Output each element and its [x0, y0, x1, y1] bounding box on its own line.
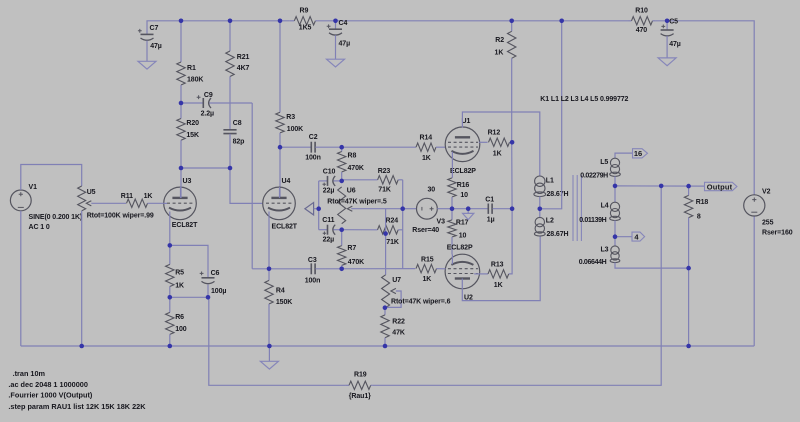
svg-text:100n: 100n [305, 155, 321, 162]
wire C3 row [252, 268, 311, 270]
svg-text:R4: R4 [276, 287, 285, 294]
wire C3 to R15 [316, 268, 416, 270]
svg-text:100n: 100n [305, 277, 321, 284]
svg-text:R15: R15 [421, 256, 434, 263]
wire B+ rail middle [317, 20, 628, 22]
svg-text:100: 100 [175, 326, 187, 333]
svg-text:SINE(0 0.200 1K): SINE(0 0.200 1K) [29, 214, 83, 221]
svg-text:150K: 150K [276, 299, 292, 306]
svg-text:10: 10 [459, 233, 467, 240]
triode U3 [164, 178, 198, 229]
svg-text:1K: 1K [494, 282, 503, 289]
pentode U1 [445, 118, 480, 175]
svg-text:470K: 470K [348, 165, 364, 172]
svg-text:.Fourrier 1000 V(Output): .Fourrier 1000 V(Output) [8, 391, 92, 400]
svg-text:22µ: 22µ [323, 236, 335, 243]
svg-text:0.01139H: 0.01139H [579, 217, 606, 224]
capacitor C6 [170, 245, 227, 297]
svg-text:R13: R13 [491, 261, 504, 268]
wire ground rail bottom [21, 345, 754, 347]
svg-text:15K: 15K [186, 132, 199, 139]
svg-text:1K: 1K [495, 50, 504, 57]
svg-text:C10: C10 [323, 168, 336, 175]
capacitor C9 [181, 92, 252, 118]
svg-text:L4: L4 [601, 203, 609, 210]
capacitor C8 [223, 120, 244, 168]
wire U6 wiper to U7 [385, 209, 387, 275]
svg-text:AC 1 0: AC 1 0 [29, 224, 50, 231]
svg-text:47µ: 47µ [339, 41, 351, 48]
svg-text:C2: C2 [309, 134, 318, 141]
capacitor C11 [319, 217, 342, 243]
svg-text:1K5: 1K5 [299, 24, 312, 31]
svg-text:R17: R17 [456, 220, 469, 227]
svg-text:L2: L2 [546, 217, 554, 224]
wire U5 to rail [81, 211, 83, 346]
svg-text:28.67H: 28.67H [547, 231, 569, 238]
svg-text:U4: U4 [282, 178, 291, 185]
svg-text:ECL82P: ECL82P [450, 168, 476, 175]
svg-text:2.2µ: 2.2µ [201, 111, 214, 118]
resistor R5 [166, 245, 185, 297]
ground at C7 [138, 61, 156, 69]
wire C9 to C3 row [251, 103, 253, 269]
wire C8 to U4 grid [230, 168, 262, 203]
svg-text:28.67H: 28.67H [547, 191, 569, 198]
svg-text:L1: L1 [546, 178, 554, 185]
svg-text:R24: R24 [386, 218, 399, 225]
wire U3 grid [164, 202, 167, 204]
svg-text:L5: L5 [600, 159, 608, 166]
svg-text:R9: R9 [300, 8, 309, 15]
voltage source V3 [403, 187, 452, 234]
svg-text:R21: R21 [237, 54, 250, 61]
svg-text:1K: 1K [493, 151, 502, 158]
wire output row [615, 185, 704, 187]
svg-text:Rser=160: Rser=160 [762, 229, 793, 236]
capacitor C7 [138, 25, 162, 61]
potentiometer U7 [382, 275, 451, 308]
pentode U2 [445, 244, 480, 301]
svg-text:30: 30 [428, 187, 436, 194]
svg-text:C3: C3 [308, 257, 317, 264]
wire U6 wiper row [351, 208, 403, 210]
resistor R18 [684, 186, 708, 346]
svg-text:1K: 1K [175, 282, 184, 289]
svg-text:R2: R2 [495, 37, 504, 44]
potentiometer U5 [78, 186, 154, 219]
resistor R15 [416, 256, 446, 283]
svg-text:R1: R1 [187, 65, 196, 72]
ground at R17 [452, 209, 488, 220]
resistor R21 [226, 21, 250, 130]
svg-text:C6: C6 [211, 270, 220, 277]
svg-text:10: 10 [460, 192, 468, 199]
svg-text:180K: 180K [187, 77, 203, 84]
ground at C5 [658, 58, 676, 66]
wire V1 to U5 [21, 165, 82, 191]
svg-text:1µ: 1µ [487, 217, 495, 224]
resistor R4 [265, 269, 292, 346]
resistor R13 [474, 261, 509, 289]
svg-text:R7: R7 [347, 245, 356, 252]
svg-text:R3: R3 [286, 114, 295, 121]
svg-text:Rser=40: Rser=40 [412, 227, 439, 234]
svg-text:1K: 1K [144, 193, 153, 200]
wire grid row to R14 [342, 146, 416, 148]
svg-text:ECL82T: ECL82T [172, 222, 198, 229]
svg-text:V3: V3 [437, 219, 446, 226]
wire R23-R24 right column [402, 180, 404, 269]
capacitor C4 [327, 20, 350, 59]
svg-text:100µ: 100µ [211, 288, 226, 295]
svg-text:C1: C1 [485, 196, 494, 203]
svg-text:470K: 470K [348, 259, 364, 266]
resistor R16 [448, 178, 470, 209]
svg-text:V1: V1 [29, 184, 38, 191]
svg-text:71K: 71K [386, 239, 399, 246]
wire U4 cathode [268, 212, 270, 269]
inductor L5 [580, 153, 632, 186]
svg-text:82p: 82p [233, 139, 245, 146]
svg-text:R10: R10 [635, 7, 648, 14]
wire R20-C8 node [181, 167, 230, 169]
resistor R24 [342, 218, 403, 247]
svg-text:1K: 1K [423, 276, 432, 283]
wire B+ rail left [147, 21, 290, 34]
resistor R17 [448, 209, 469, 255]
transformer core [573, 175, 581, 241]
wire feedback from output [372, 186, 661, 385]
resistor R6 [166, 297, 187, 346]
svg-text:U3: U3 [183, 178, 192, 185]
wire R5-C6 bottom [170, 296, 208, 298]
voltage source V2 [744, 189, 793, 237]
svg-text:C5: C5 [669, 19, 678, 26]
svg-text:V2: V2 [762, 189, 771, 196]
svg-text:.step param RAU1 list 12K 15K: .step param RAU1 list 12K 15K 18K 22K [8, 402, 146, 411]
svg-text:U7: U7 [392, 277, 401, 284]
svg-text:C8: C8 [233, 120, 242, 127]
svg-text:0.06644H: 0.06644H [579, 259, 607, 266]
svg-text:71K: 71K [378, 187, 391, 194]
inductor L2 [534, 209, 568, 238]
svg-text:R22: R22 [392, 319, 405, 326]
svg-text:C11: C11 [322, 217, 334, 224]
resistor R12 [479, 130, 512, 158]
svg-text:R5: R5 [175, 270, 184, 277]
wire U1 anode [462, 112, 539, 176]
inductor L1 [534, 176, 569, 209]
svg-text:R14: R14 [420, 135, 433, 142]
svg-text:U5: U5 [87, 189, 96, 196]
net flag 16 [633, 149, 648, 159]
resistor R20 [177, 103, 199, 168]
inductor L3 [579, 237, 689, 268]
resistor R11 [121, 193, 164, 208]
resistor R10 [629, 7, 656, 33]
net flag 4 [615, 232, 645, 241]
svg-text:22µ: 22µ [323, 187, 335, 194]
text spice directives [8, 369, 146, 411]
svg-text:C7: C7 [150, 25, 159, 32]
wire U3 cathode [169, 212, 171, 246]
svg-text:47µ: 47µ [669, 41, 681, 48]
svg-text:L3: L3 [601, 247, 609, 254]
wire U2 anode [462, 236, 540, 301]
wire U1 cathode [451, 152, 453, 178]
svg-text:0.02279H: 0.02279H [580, 173, 608, 180]
resistor R23 [342, 168, 403, 194]
svg-text:R23: R23 [378, 168, 391, 175]
svg-text:47µ: 47µ [150, 43, 162, 50]
capacitor C5 [661, 19, 681, 58]
resistor R1 [177, 21, 204, 103]
arrow marker [305, 203, 319, 215]
svg-text:R8: R8 [348, 153, 357, 160]
svg-text:R19: R19 [354, 372, 367, 379]
svg-text:Rtot=100K wiper=.99: Rtot=100K wiper=.99 [87, 212, 154, 219]
svg-text:ECL82P: ECL82P [447, 244, 473, 251]
wire C10-C11 left link [318, 181, 320, 230]
ground bottom [260, 346, 278, 369]
svg-text:16: 16 [634, 149, 642, 158]
svg-text:R11: R11 [121, 193, 133, 200]
svg-text:255: 255 [762, 220, 774, 227]
wire feedback to cathode [209, 297, 345, 385]
svg-text:C4: C4 [339, 20, 348, 27]
resistor R2 [495, 21, 516, 59]
svg-text:R6: R6 [175, 314, 184, 321]
svg-text:U6: U6 [347, 188, 356, 195]
inductor L4 [579, 186, 620, 237]
svg-text:R12: R12 [488, 130, 501, 137]
wire U2 cathode [451, 254, 453, 264]
resistor R8 [338, 147, 364, 181]
net flag Output [705, 182, 737, 191]
svg-text:8: 8 [697, 213, 701, 220]
wire V2 bottom [753, 216, 755, 346]
wire V1 to rail [20, 211, 22, 346]
capacitor C2 [280, 134, 342, 162]
resistor R7 [338, 230, 365, 269]
capacitor C10 [319, 168, 342, 194]
resistor R19 [345, 372, 372, 400]
wire B+ rail right to V2 [655, 21, 754, 195]
svg-text:4K7: 4K7 [237, 65, 250, 72]
svg-text:Output: Output [707, 182, 733, 191]
svg-text:.tran 10m: .tran 10m [13, 369, 46, 378]
svg-text:470: 470 [636, 27, 648, 34]
svg-text:{Rau1}: {Rau1} [349, 393, 371, 400]
svg-text:47K: 47K [392, 329, 405, 336]
wire U4 anode [279, 147, 281, 198]
resistor R9 [290, 8, 318, 32]
svg-text:Rtot=47K wiper=.5: Rtot=47K wiper=.5 [327, 199, 387, 206]
svg-text:1K: 1K [422, 155, 431, 162]
resistor R14 [416, 135, 446, 162]
ground at C4 [327, 59, 345, 67]
svg-text:Rtot=47K wiper=.6: Rtot=47K wiper=.6 [391, 299, 451, 306]
svg-text:R18: R18 [696, 199, 709, 206]
resistor R22 [381, 308, 405, 346]
capacitor C1 [485, 196, 512, 223]
capacitor C3 [305, 257, 321, 284]
wire primary center tap [540, 21, 562, 209]
svg-text:C9: C9 [204, 92, 213, 99]
svg-text:ECL82T: ECL82T [272, 224, 298, 231]
svg-text:100K: 100K [287, 126, 303, 133]
resistor R3 [276, 21, 303, 147]
potentiometer U6 [327, 187, 387, 224]
wire R2 column [509, 58, 512, 274]
svg-text:.ac dec 2048 1 1000000: .ac dec 2048 1 1000000 [8, 380, 88, 389]
voltage source V1 [10, 184, 82, 231]
svg-text:R20: R20 [186, 120, 199, 127]
triode U4 [263, 178, 298, 231]
svg-text:R16: R16 [457, 182, 470, 189]
wire U3 anode [180, 168, 182, 198]
svg-text:K1 L1 L2 L3 L4 L5 0.999772: K1 L1 L2 L3 L4 L5 0.999772 [540, 96, 628, 103]
